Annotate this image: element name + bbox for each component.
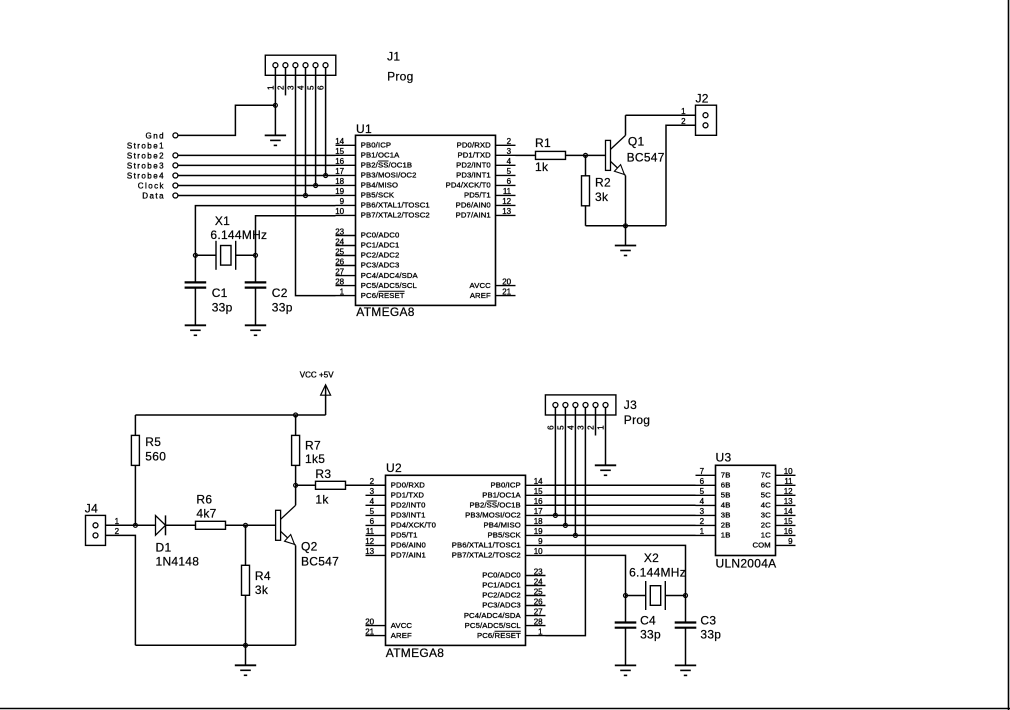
svg-text:21: 21 <box>365 627 374 636</box>
U2 pin label PB7/XTAL2/TOSC2 <box>452 551 521 560</box>
border bottom edge <box>0 708 1010 710</box>
svg-text:2: 2 <box>507 137 512 146</box>
svg-text:C3: C3 <box>700 614 716 628</box>
U1 pin label PC2/ADC2 <box>361 251 400 260</box>
U3 pin number 5 <box>700 487 705 496</box>
U2 pin label PB6/XTAL1/TOSC1 <box>452 541 521 550</box>
wire U1 pin9 to X1 left <box>195 206 335 256</box>
U2 pin 9 stub <box>526 544 546 546</box>
U2 pin label PB5/SCK <box>487 531 521 540</box>
U1 pin number 2 <box>507 137 512 146</box>
junction R4/ground rail <box>244 643 248 647</box>
svg-text:10: 10 <box>534 547 543 556</box>
capacitor C4 <box>615 596 637 666</box>
U1 pin label PD6/AIN0 <box>456 201 491 210</box>
U2 pin number 16 <box>534 497 543 506</box>
U2 pin number 9 <box>538 537 543 546</box>
pin number 1 (J1) <box>267 85 276 90</box>
U2 pin label PB4/MISO <box>484 521 521 530</box>
U1 pin label PB7/XTAL2/TOSC2 <box>361 211 430 220</box>
U1 pin label PC0/ADC0 <box>361 231 400 240</box>
U3 pin number 2 <box>700 517 705 526</box>
svg-text:PB7/XTAL2/TOSC2: PB7/XTAL2/TOSC2 <box>452 551 521 560</box>
svg-text:26: 26 <box>534 597 543 606</box>
wire bottom ground rail <box>135 644 295 646</box>
svg-text:Prog: Prog <box>387 69 413 83</box>
U2 pin 11 stub <box>366 534 386 536</box>
connector J3 <box>545 395 616 415</box>
svg-text:5: 5 <box>307 85 316 90</box>
capacitor C3 <box>675 596 697 666</box>
U1 pin label PB3/MOSI/OC2 <box>361 171 417 180</box>
wire J1 pin1 to ground <box>274 68 276 135</box>
svg-text:18: 18 <box>335 177 344 186</box>
U2 pin 20 stub <box>366 625 386 627</box>
svg-text:4B: 4B <box>721 501 731 510</box>
U1 pin 13 stub <box>496 214 516 216</box>
svg-text:4: 4 <box>370 497 375 506</box>
svg-text:Gnd: Gnd <box>146 131 165 140</box>
U2 pin label PB2/SS/OC1B <box>469 501 520 510</box>
svg-text:9: 9 <box>538 537 543 546</box>
svg-text:6.144MHz: 6.144MHz <box>629 565 686 579</box>
op-amp U1 body <box>356 135 496 305</box>
label X1 <box>215 214 230 228</box>
wire J4 pin1 <box>106 524 136 526</box>
U1 pin number 16 <box>335 157 344 166</box>
U2 pin label PD1/TXD <box>391 491 425 500</box>
label ULN2004A (U3) <box>716 556 777 570</box>
svg-text:9: 9 <box>788 537 793 546</box>
svg-text:2: 2 <box>700 517 705 526</box>
svg-text:7B: 7B <box>721 471 731 480</box>
U2 pin number 12 <box>365 537 374 546</box>
svg-text:4: 4 <box>297 85 306 90</box>
svg-text:15: 15 <box>534 487 543 496</box>
U2 pin number 13 <box>365 547 374 556</box>
U3 pin number 6 <box>700 477 705 486</box>
U3 pin label 3B <box>721 511 731 520</box>
svg-text:PD7/AIN1: PD7/AIN1 <box>391 551 426 560</box>
svg-text:12: 12 <box>365 537 374 546</box>
wire ground rail (Q1) <box>586 225 667 227</box>
U1 pin number 28 <box>335 277 344 286</box>
U1 pin number 11 <box>503 187 512 196</box>
op-amp U2 body <box>386 475 526 645</box>
U1 pin label PD4/XCK/T0 <box>446 181 491 190</box>
svg-text:28: 28 <box>335 277 344 286</box>
svg-text:ATMEGA8: ATMEGA8 <box>356 305 414 319</box>
U1 pin label PC4/ADC4/SDA <box>361 271 419 280</box>
U3 pin number 15 <box>784 517 793 526</box>
U2 pin number 18 <box>534 517 543 526</box>
U3 pin number 14 <box>784 507 793 516</box>
U2 pin label PC1/ADC1 <box>482 581 521 590</box>
U2 pin number 23 <box>534 567 543 576</box>
U2 pin 25 stub <box>526 595 546 597</box>
U2 pin label PC2/ADC2 <box>482 591 521 600</box>
label 6.144MHz (X2) <box>629 565 686 579</box>
U1 pin 19 stub <box>336 194 356 196</box>
svg-text:33p: 33p <box>212 301 233 315</box>
wire VCC rail <box>135 414 325 416</box>
label R3 <box>315 467 331 481</box>
U2 pin number 20 <box>365 617 374 626</box>
U1 pin label PC3/ADC3 <box>361 261 400 270</box>
svg-text:7C: 7C <box>761 471 771 480</box>
svg-text:J4: J4 <box>85 501 98 515</box>
U2 pin 2 stub <box>366 484 386 486</box>
U1 pin label AREF <box>470 291 491 300</box>
label 6.144MHz (X1) <box>210 228 267 242</box>
svg-text:7: 7 <box>700 467 705 476</box>
U1 pin label PD5/T1 <box>464 191 491 200</box>
resistor R5 <box>131 415 139 525</box>
U2 pin number 6 <box>370 517 375 526</box>
svg-text:1: 1 <box>538 627 543 636</box>
svg-text:ULN2004A: ULN2004A <box>716 556 777 570</box>
svg-text:2: 2 <box>370 477 375 486</box>
svg-text:Prog: Prog <box>624 413 650 427</box>
svg-text:PB1/OC1A: PB1/OC1A <box>482 491 521 500</box>
label 1k5 (R7) <box>305 452 325 466</box>
U2 pin 12 stub <box>366 544 386 546</box>
pin number 4 (J1) <box>297 85 306 90</box>
svg-text:18: 18 <box>534 517 543 526</box>
svg-text:Data: Data <box>142 192 165 201</box>
label Strobe1 <box>127 141 165 150</box>
U3 pin label COM <box>753 541 771 550</box>
U1 pin 17 stub <box>336 174 356 176</box>
U3 pin 7 stub <box>696 474 716 476</box>
U1 pin label PD0/RXD <box>457 141 491 150</box>
U2 pin number 5 <box>370 507 375 516</box>
U2 pin label AREF <box>391 631 412 640</box>
node Clock <box>173 183 336 188</box>
U1 pin 27 stub <box>336 275 356 277</box>
svg-text:PD4/XCK/T0: PD4/XCK/T0 <box>446 181 491 190</box>
transistor Q1 <box>586 115 626 226</box>
label R1 <box>535 136 551 150</box>
U1 pin number 15 <box>335 147 344 156</box>
svg-text:23: 23 <box>335 227 344 236</box>
svg-text:PC1/ADC1: PC1/ADC1 <box>482 581 521 590</box>
svg-text:2C: 2C <box>761 521 771 530</box>
ground under C2 <box>245 325 266 335</box>
svg-text:D1: D1 <box>156 541 172 555</box>
U2 pin number 2 <box>370 477 375 486</box>
U2 pin label PD3/INT1 <box>391 511 426 520</box>
label 33p (C1) <box>212 301 233 315</box>
svg-text:20: 20 <box>365 617 374 626</box>
U2 pin 23 stub <box>526 575 546 577</box>
svg-text:1k5: 1k5 <box>305 452 325 466</box>
U2 pin label PD0/RXD <box>391 481 425 490</box>
label BC547 (Q2) <box>301 554 339 568</box>
label 33p (C2) <box>272 301 293 315</box>
svg-text:PB5/SCK: PB5/SCK <box>487 531 521 540</box>
U3 pin 5 stub <box>696 494 716 496</box>
U1 pin 25 stub <box>336 255 356 257</box>
svg-text:AVCC: AVCC <box>470 281 492 290</box>
label C2 <box>272 286 288 300</box>
U2 pin label PC3/ADC3 <box>482 601 521 610</box>
svg-text:5: 5 <box>557 425 566 430</box>
wire U2 pin10 to X2 left <box>546 555 626 595</box>
ground under C3 <box>675 665 696 675</box>
svg-text:X1: X1 <box>215 214 230 228</box>
capacitor C1 <box>185 255 207 325</box>
svg-text:33p: 33p <box>272 301 293 315</box>
wire J1 pin4 to Data net <box>305 68 307 196</box>
svg-text:BC547: BC547 <box>627 150 665 164</box>
U3 pin number 9 <box>788 537 793 546</box>
svg-text:27: 27 <box>335 267 344 276</box>
border right edge <box>1008 0 1010 710</box>
svg-text:5B: 5B <box>721 491 731 500</box>
svg-text:11: 11 <box>784 477 793 486</box>
U3 pin number 3 <box>700 507 705 516</box>
svg-text:6B: 6B <box>721 481 731 490</box>
label C1 <box>212 286 228 300</box>
U1 pin 20 stub <box>496 285 516 287</box>
junction SCK/J3 pin4 <box>573 533 577 537</box>
label Gnd <box>146 131 165 140</box>
svg-text:PD7/AIN1: PD7/AIN1 <box>456 211 491 220</box>
svg-text:PB0/ICP: PB0/ICP <box>490 481 520 490</box>
wire J3 pin1 to ground <box>605 408 607 466</box>
svg-text:3k: 3k <box>595 190 609 204</box>
U2 pin label PC5/ADC5/SCL <box>465 621 522 630</box>
transistor Q2 <box>246 485 296 645</box>
U1 pin 12 stub <box>496 204 516 206</box>
U1 pin 11 stub <box>496 194 516 196</box>
svg-text:PB5/SCK: PB5/SCK <box>361 191 395 200</box>
wire U2 pin17 to U3 3B <box>546 514 696 516</box>
svg-text:PC4/ADC4/SDA: PC4/ADC4/SDA <box>361 271 419 280</box>
svg-text:4k7: 4k7 <box>196 507 216 521</box>
svg-text:PD6/AIN0: PD6/AIN0 <box>391 541 426 550</box>
power VCC +5V <box>321 385 331 415</box>
svg-text:PD4/XCK/T0: PD4/XCK/T0 <box>391 521 436 530</box>
label R7 <box>305 438 321 452</box>
svg-text:PB7/XTAL2/TOSC2: PB7/XTAL2/TOSC2 <box>361 211 430 220</box>
junction R6/R4/Q2 base <box>244 523 248 527</box>
U3 pin label 3C <box>761 511 771 520</box>
U2 pin 16 stub <box>526 504 546 506</box>
U3 pin label 7B <box>721 471 731 480</box>
wire J4 pin2 to ground rail <box>106 535 136 645</box>
label 33p (C3) <box>700 627 721 641</box>
U2 pin label PD7/AIN1 <box>391 551 426 560</box>
U2 pin label PD5/T1 <box>391 531 418 540</box>
label VCC +5V <box>300 370 335 379</box>
svg-text:1k: 1k <box>535 160 549 174</box>
label J1 <box>387 49 400 63</box>
U2 pin 18 stub <box>526 524 546 526</box>
svg-text:6: 6 <box>547 425 556 430</box>
label J4 <box>85 501 98 515</box>
svg-text:Strobe2: Strobe2 <box>127 151 165 160</box>
label R2 <box>595 176 611 190</box>
label U1 <box>356 122 372 136</box>
svg-text:Strobe3: Strobe3 <box>127 161 165 170</box>
connector J2 <box>696 105 717 135</box>
U1 pin number 17 <box>335 167 344 176</box>
svg-text:PB6/XTAL1/TOSC1: PB6/XTAL1/TOSC1 <box>452 541 521 550</box>
junction on J1 pin1 (Gnd net) <box>273 103 277 107</box>
label 3k (R2) <box>595 190 609 204</box>
U1 pin 21 stub <box>496 295 516 297</box>
svg-text:PD0/RXD: PD0/RXD <box>457 141 491 150</box>
U1 pin number 1 <box>340 287 345 296</box>
wire U2 pin9 to X2 right <box>546 545 686 595</box>
U3 pin label 6C <box>761 481 771 490</box>
J2 pin number 1 <box>681 107 686 116</box>
svg-text:PC3/ADC3: PC3/ADC3 <box>482 601 521 610</box>
U3 pin 13 stub <box>776 504 796 506</box>
svg-text:23: 23 <box>534 567 543 576</box>
svg-text:3C: 3C <box>761 511 771 520</box>
label 1k (R1) <box>535 160 549 174</box>
svg-text:11: 11 <box>503 187 512 196</box>
junction X1 right <box>254 253 258 257</box>
U1 pin 24 stub <box>336 245 356 247</box>
svg-text:6: 6 <box>507 177 512 186</box>
svg-text:1: 1 <box>597 425 606 430</box>
U2 pin 19 stub <box>526 534 546 536</box>
U1 pin number 27 <box>335 267 344 276</box>
svg-text:R2: R2 <box>595 176 611 190</box>
label U3 <box>716 451 732 465</box>
svg-text:R5: R5 <box>145 435 161 449</box>
U1 pin label PB6/XTAL1/TOSC1 <box>361 201 430 210</box>
svg-text:C2: C2 <box>272 286 288 300</box>
label Prog (J1) <box>387 69 413 83</box>
U2 pin label PB0/ICP <box>490 481 520 490</box>
U3 pin label 1B <box>721 531 731 540</box>
U1 pin number 10 <box>335 207 344 216</box>
node Strobe2 <box>173 153 336 158</box>
label Prog (J3) <box>624 413 650 427</box>
U1 pin number 24 <box>335 237 344 246</box>
svg-text:PD1/TXD: PD1/TXD <box>457 151 491 160</box>
ground symbol under J1 <box>265 135 286 145</box>
label J2 <box>696 92 709 106</box>
crystal X1 <box>195 241 255 270</box>
svg-text:3B: 3B <box>721 511 731 520</box>
U2 pin label PD6/AIN0 <box>391 541 426 550</box>
svg-text:R7: R7 <box>305 438 321 452</box>
wire J3 pin4 to SCK <box>574 408 576 536</box>
U2 pin label PC0/ADC0 <box>482 571 521 580</box>
svg-text:PC2/ADC2: PC2/ADC2 <box>482 591 521 600</box>
svg-text:15: 15 <box>784 517 793 526</box>
U3 pin 4 stub <box>696 504 716 506</box>
U2 pin number 28 <box>534 617 543 626</box>
U3 pin label 1C <box>761 531 771 540</box>
label C3 <box>700 614 716 628</box>
U1 pin 28 stub <box>336 285 356 287</box>
svg-text:C1: C1 <box>212 286 228 300</box>
U3 pin number 13 <box>784 497 793 506</box>
label R4 <box>255 569 271 583</box>
svg-text:1B: 1B <box>721 531 731 540</box>
U2 pin number 15 <box>534 487 543 496</box>
wire J3 pin5 to MISO <box>564 408 566 526</box>
wire J2 pin2 to ground rail <box>666 125 696 226</box>
svg-text:4C: 4C <box>761 501 771 510</box>
wire J1 pin3 to reset net <box>296 68 336 296</box>
U3 pin 12 stub <box>776 494 796 496</box>
junction X2 left <box>624 594 628 598</box>
U1 pin label PD3/INT1 <box>456 171 491 180</box>
svg-text:VCC +5V: VCC +5V <box>300 370 335 379</box>
U1 pin number 25 <box>335 247 344 256</box>
svg-text:5: 5 <box>370 507 375 516</box>
svg-text:2B: 2B <box>721 521 731 530</box>
svg-text:PB0/ICP: PB0/ICP <box>361 141 391 150</box>
U1 pin 3 stub <box>496 154 516 156</box>
svg-text:10: 10 <box>784 467 793 476</box>
U2 pin 28 stub <box>526 625 546 627</box>
resistor R4 <box>242 525 250 645</box>
svg-text:PC5/ADC5/SCL: PC5/ADC5/SCL <box>361 281 418 290</box>
U2 pin label PC6/RESET <box>477 631 521 640</box>
svg-text:PC0/ADC0: PC0/ADC0 <box>482 571 521 580</box>
junction J4 pin1/R5/D1 <box>133 523 137 527</box>
crystal X2 <box>626 581 686 610</box>
ground under J3 <box>595 465 616 475</box>
svg-text:17: 17 <box>335 167 344 176</box>
U1 pin number 26 <box>335 257 344 266</box>
wire J3 pin3 to reset <box>546 408 586 636</box>
U2 pin 24 stub <box>526 585 546 587</box>
label Data <box>142 192 165 201</box>
svg-text:PD2/INT0: PD2/INT0 <box>456 161 491 170</box>
svg-text:5: 5 <box>700 487 705 496</box>
pin number 6 (J1) <box>317 85 326 90</box>
U2 pin 10 stub <box>526 554 546 556</box>
U2 pin number 25 <box>534 587 543 596</box>
U2 pin label PD2/INT0 <box>391 501 426 510</box>
U3 pin label 4B <box>721 501 731 510</box>
wire J1 pin2 stub <box>285 68 287 96</box>
label 560 (R5) <box>145 449 166 463</box>
svg-text:ATMEGA8: ATMEGA8 <box>386 646 444 660</box>
junction R7/VCC rail <box>294 413 298 417</box>
junction Q1 emitter/gnd <box>624 224 628 228</box>
svg-text:16: 16 <box>534 497 543 506</box>
svg-text:AREF: AREF <box>470 291 491 300</box>
svg-text:13: 13 <box>784 497 793 506</box>
U1 pin number 4 <box>507 157 512 166</box>
svg-text:19: 19 <box>534 527 543 536</box>
svg-text:PB1/OC1A: PB1/OC1A <box>361 151 400 160</box>
U2 pin number 26 <box>534 597 543 606</box>
U3 pin 3 stub <box>696 514 716 516</box>
label Q1 <box>628 134 645 148</box>
U3 pin 15 stub <box>776 524 796 526</box>
U1 pin 6 stub <box>496 184 516 186</box>
svg-text:5: 5 <box>507 167 512 176</box>
ground under C4 <box>615 665 636 675</box>
svg-text:PB4/MISO: PB4/MISO <box>361 181 398 190</box>
U1 pin label PB0/ICP <box>361 141 391 150</box>
svg-text:3: 3 <box>370 487 375 496</box>
svg-text:U1: U1 <box>356 122 372 136</box>
junction MISO/J3 pin5 <box>563 523 567 527</box>
